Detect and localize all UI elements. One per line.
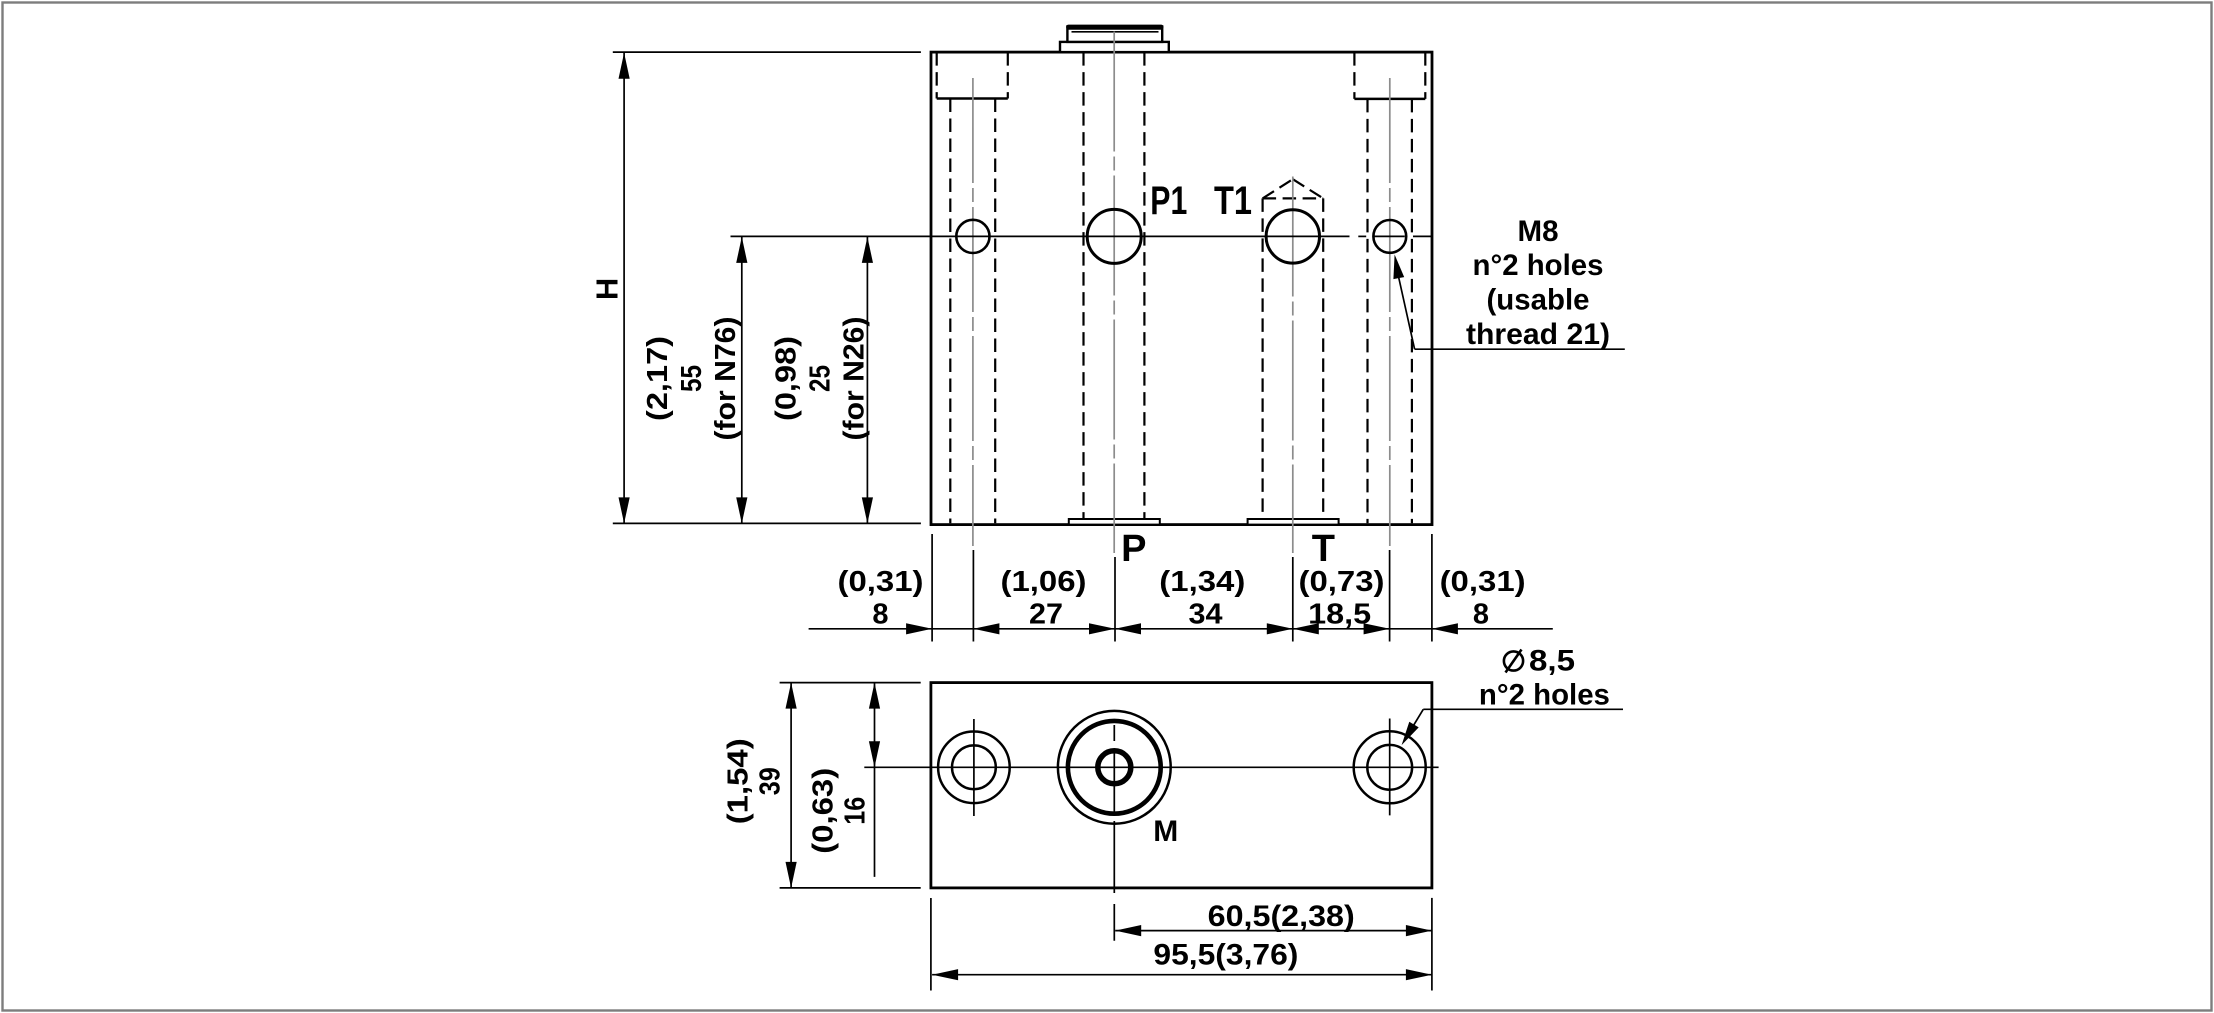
bottom view centerline (864, 766, 1438, 768)
svg-text:8: 8 (872, 598, 888, 630)
dim text (0,73) 18,5 (1299, 566, 1385, 631)
svg-text:n°2 holes: n°2 holes (1473, 249, 1604, 282)
svg-text:H: H (590, 278, 625, 300)
M8 note text (1466, 215, 1610, 351)
bottom view left hole (938, 719, 1010, 816)
horizontal hole centerline (731, 235, 1432, 237)
svg-text:39: 39 (755, 767, 787, 795)
bottom view top extension line (780, 682, 921, 684)
T port vent triangle (dashed) (1263, 179, 1324, 198)
left screw hole circle (956, 220, 989, 253)
M8 hole centerline (1389, 78, 1391, 546)
svg-text:(0,98): (0,98) (771, 336, 803, 421)
T port bottom tab (1248, 519, 1339, 525)
bottom view block outline (931, 683, 1432, 888)
svg-text:(1,06): (1,06) (1001, 566, 1087, 598)
svg-text:P1: P1 (1150, 179, 1187, 223)
svg-text:(usable: (usable (1487, 284, 1590, 317)
T port bore (dashed) (1263, 198, 1324, 519)
dimension H arrow line (619, 53, 630, 524)
note diameter 8,5 n°2 holes (1479, 645, 1610, 712)
svg-text:25: 25 (805, 365, 837, 392)
bottom dim row line (809, 628, 1553, 630)
dimension text (1,54) 39 (723, 738, 787, 824)
svg-text:P: P (1121, 528, 1146, 570)
bottom dims extension lines (931, 898, 1432, 991)
dim text (0,31) 8 left (838, 566, 924, 631)
dimension 95,5 line (932, 969, 1432, 980)
dimension 55 arrow line (736, 237, 747, 524)
bottom dim row extension lines (932, 534, 1432, 642)
dimension 60,5 line (1115, 925, 1432, 936)
dimension 25 arrow line (862, 237, 873, 524)
dimension text (2,17) 55 (for N76) (642, 317, 742, 441)
P port boss upper step (1066, 25, 1163, 42)
P port bottom tab (1069, 519, 1160, 525)
M8 leader line (1393, 255, 1624, 350)
svg-text:18,5: 18,5 (1308, 598, 1371, 630)
svg-text:55: 55 (676, 365, 708, 392)
svg-text:(for N76): (for N76) (710, 317, 742, 441)
port M centerline vertical (1113, 725, 1115, 941)
svg-text:16: 16 (840, 797, 872, 825)
holes leader line (1402, 709, 1623, 745)
bottom dim row arrowheads (906, 623, 1458, 634)
P port bore (dashed) (1084, 52, 1145, 519)
left screw hole bore (dashed) (950, 99, 995, 524)
svg-text:(for N26): (for N26) (839, 317, 871, 441)
T1 port circle (1266, 210, 1319, 263)
P port boss lower step (1060, 42, 1169, 52)
dimension 16 arrow line (869, 683, 880, 877)
M8 hole counterbore (1354, 52, 1425, 99)
svg-text:60,5(2,38): 60,5(2,38) (1208, 900, 1355, 933)
svg-text:T1: T1 (1214, 179, 1252, 223)
dimension text (0,98) 25 (for N26) (771, 317, 871, 441)
port M outer circles (1058, 711, 1171, 824)
left screw hole counterbore (937, 52, 1008, 98)
svg-text:(0,73): (0,73) (1299, 566, 1385, 598)
svg-text:(1,34): (1,34) (1159, 566, 1245, 598)
svg-text:8: 8 (1473, 598, 1489, 630)
P1 port circle (1087, 209, 1141, 263)
bottom view bottom extension line (780, 887, 921, 889)
svg-text:(0,31): (0,31) (838, 566, 924, 598)
bottom extension line (613, 522, 921, 524)
dim text (1,06) 27 (1001, 566, 1087, 631)
M8 hole bore (dashed) (1368, 99, 1412, 523)
svg-text:T: T (1312, 528, 1335, 570)
svg-text:95,5(3,76): 95,5(3,76) (1153, 939, 1298, 972)
bottom view right hole (1354, 719, 1426, 816)
dimension text (0,63) 16 (808, 768, 872, 854)
left screw hole centerline (972, 78, 974, 546)
dimension 39 arrow line (786, 683, 797, 888)
svg-text:thread 21): thread 21) (1466, 318, 1610, 351)
svg-text:27: 27 (1029, 598, 1063, 630)
svg-text:(1,54): (1,54) (723, 738, 755, 824)
main view block outline (931, 52, 1432, 524)
port M center hole (1098, 751, 1131, 784)
svg-text:(2,17): (2,17) (642, 336, 674, 421)
T port centerline (1292, 177, 1294, 554)
svg-text:M: M (1153, 815, 1178, 848)
svg-text:8,5: 8,5 (1529, 645, 1575, 678)
svg-text:(0,63): (0,63) (808, 768, 840, 854)
svg-text:34: 34 (1189, 598, 1223, 630)
svg-text:M8: M8 (1518, 215, 1559, 248)
M8 hole circle (1373, 220, 1406, 253)
svg-text:n°2 holes: n°2 holes (1479, 679, 1610, 712)
P port centerline (1113, 32, 1115, 554)
dim text (0,31) 8 right (1440, 566, 1526, 631)
top extension line (613, 51, 921, 53)
dim text (1,34) 34 (1159, 566, 1245, 631)
svg-text:(0,31): (0,31) (1440, 566, 1526, 598)
